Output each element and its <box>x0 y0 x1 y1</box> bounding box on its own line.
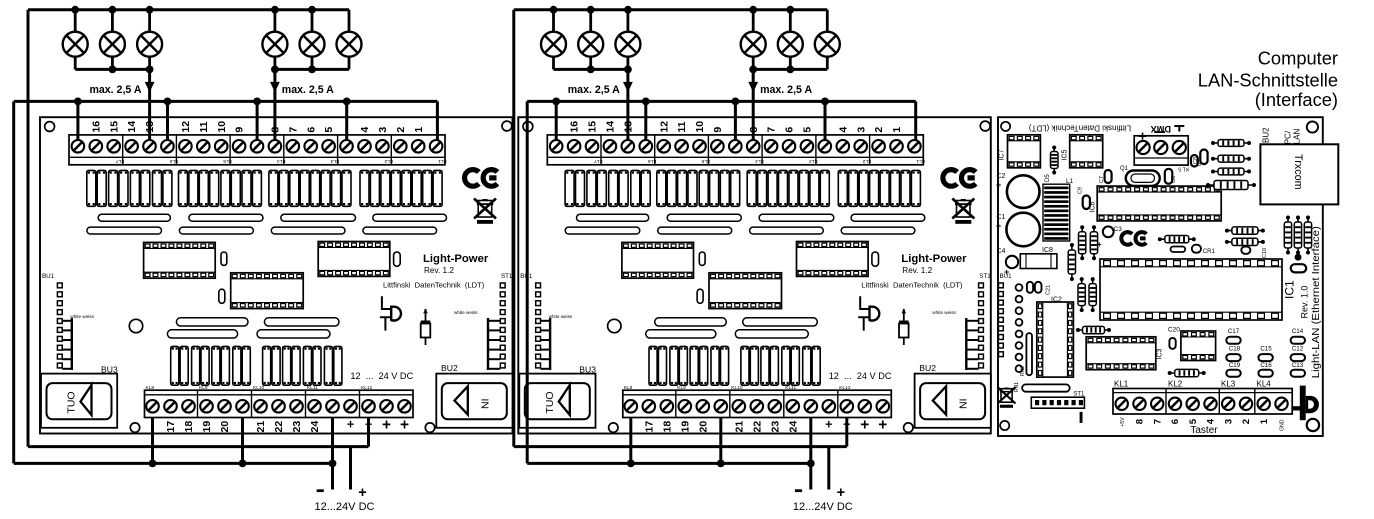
board 1 capacitor beside U1 <box>221 252 227 265</box>
svg-text:IC3: IC3 <box>1157 349 1164 360</box>
wire: bottom common stub (board 2) <box>629 418 632 464</box>
IC6 <box>1097 186 1221 221</box>
svg-text:Computer: Computer <box>1258 48 1338 69</box>
lamp stem bottom (board 2 group 1 lamp 3) <box>627 56 630 69</box>
fuse arrow max 2,5A (board 1 group 2) <box>270 82 280 92</box>
interface board LDT logo (bold) <box>1300 386 1306 421</box>
junction lamp top (board 1) <box>271 6 279 14</box>
svg-text:KL10: KL10 <box>253 385 265 391</box>
Taster terminal strip KL1-KL4 body <box>1113 389 1292 415</box>
svg-text:Light-Power: Light-Power <box>901 253 967 265</box>
svg-text:KL6: KL6 <box>169 158 178 164</box>
ST1 pin header <box>1031 397 1084 408</box>
svg-text:KL2: KL2 <box>862 158 871 164</box>
board 1 LDT logo <box>382 296 391 309</box>
board 2 top strip screw terminals x21 <box>550 140 563 153</box>
svg-text:+: + <box>1138 129 1146 145</box>
lamp stem top (board 2 group 1 lamp 3) <box>627 10 630 32</box>
Light-LAN interface board outline <box>998 117 1323 436</box>
board 2 driver IC U1 <box>622 242 694 278</box>
C2 electrolytic capacitor <box>1007 175 1040 208</box>
junction lamp bottom (board 1) <box>271 66 279 74</box>
wire: lamp group 1 feed riser (board 2) <box>626 69 629 140</box>
board 2 mounting hole top-left <box>523 122 533 132</box>
svg-text:KL9: KL9 <box>677 385 686 391</box>
lamp stem bottom (board 1 group 2 lamp 1) <box>273 56 276 69</box>
svg-text:19: 19 <box>679 421 691 433</box>
svg-text:IC7: IC7 <box>999 150 1006 161</box>
board 1 mounting hole bottom-left <box>130 423 139 432</box>
svg-text:IC5: IC5 <box>1062 150 1069 161</box>
svg-text:5: 5 <box>1188 418 1199 424</box>
ground symbol (DMX) <box>1174 125 1184 127</box>
interface board mounting hole bottom-right <box>1307 419 1319 431</box>
svg-text:C13: C13 <box>1292 362 1304 369</box>
svg-text:KL6: KL6 <box>648 158 657 164</box>
wire: lamp group 2 feed riser (board 2) <box>752 69 755 140</box>
svg-text:KL4: KL4 <box>277 158 286 164</box>
svg-text:20: 20 <box>697 421 709 433</box>
svg-text:C15: C15 <box>1260 346 1272 353</box>
C4 capacitor round <box>1006 256 1018 268</box>
D5 diode <box>1053 148 1055 173</box>
junction below resistor network <box>1295 254 1302 261</box>
wire: lamp supply rail top (board 2) <box>514 8 828 11</box>
wire: bus stub to common terminal (board 2) <box>824 101 827 140</box>
board 1 driver IC U2 <box>231 273 304 309</box>
wire: bus riser left (board 1) <box>12 101 15 463</box>
junction on common bus (board 1) <box>74 98 82 106</box>
svg-text:8: 8 <box>1135 418 1146 424</box>
lamp E5 (board 2) <box>778 32 803 57</box>
svg-text:24: 24 <box>787 421 799 433</box>
svg-text:KL11: KL11 <box>307 385 318 391</box>
svg-text:KL4: KL4 <box>755 158 764 164</box>
C6 capacitor <box>1165 169 1173 184</box>
svg-text:BU1: BU1 <box>42 273 55 280</box>
svg-text:(Interface): (Interface) <box>1255 89 1338 110</box>
lamp E3 (board 2) <box>615 32 640 57</box>
svg-text:7: 7 <box>1152 419 1163 424</box>
junction lamp bottom (board 1) <box>109 66 117 74</box>
svg-text:10: 10 <box>694 121 706 133</box>
svg-text:+: + <box>825 418 832 432</box>
board 2 output driver pairs row (16 units) <box>565 170 574 206</box>
board 2 output driver pairs bottom row (8 units) <box>649 346 657 385</box>
lamp E3 (board 1) <box>137 32 162 57</box>
svg-text:1: 1 <box>1259 418 1270 424</box>
svg-text:Rev. 1.2: Rev. 1.2 <box>902 266 932 275</box>
wire: bottom common stub (board 1) <box>151 418 154 464</box>
svg-text:Littfinski DatenTechnik (LDT: Littfinski DatenTechnik (LDT) <box>383 281 485 290</box>
board 2 capacitor beside U2 <box>697 289 703 303</box>
board 1 driver IC U1 <box>144 242 216 278</box>
board 1 connector BU3 (OUT socket) <box>41 374 117 428</box>
lamp stem top (board 2 group 2 lamp 2) <box>789 10 792 32</box>
svg-text:12...24V DC: 12...24V DC <box>793 501 853 513</box>
resistor network (3 vertical) near BU2 <box>1287 218 1289 253</box>
Light-Power module 2: board outline <box>518 117 991 433</box>
lamp stem bottom (board 1 group 1 lamp 1) <box>74 56 77 69</box>
lamp stem top (board 1 group 1 lamp 2) <box>111 10 114 32</box>
junction lamp top (board 1) <box>71 6 79 14</box>
IC3 <box>1086 337 1156 370</box>
svg-text:Taster: Taster <box>1190 425 1218 436</box>
svg-text:+: + <box>347 418 354 432</box>
board 2 ST1 wire comb <box>965 318 967 370</box>
lamp E1 (board 2) <box>541 32 566 57</box>
svg-text:KL8: KL8 <box>624 385 633 391</box>
interface board mounting hole top-left <box>1001 122 1010 131</box>
junction on common bus (board 2) <box>642 98 650 106</box>
board 2 resistor network bars row C <box>655 318 727 326</box>
board 1 WEEE symbol <box>478 201 492 218</box>
wire: bus end stub into terminal 21 (board 1) <box>436 101 439 140</box>
board 1 output driver pairs bottom row (8 units) <box>171 346 179 385</box>
C10 capacitor <box>1241 247 1250 254</box>
wire: common bus (board 2) <box>527 100 916 103</box>
interface board WEEE symbol <box>1001 389 1012 403</box>
CR1 capacitor <box>1192 245 1201 253</box>
lamp stem bottom (board 2 group 1 lamp 1) <box>552 56 555 69</box>
resistor stack top right r4 (large) <box>1208 184 1254 186</box>
svg-text:LAN: LAN <box>1293 129 1302 145</box>
board 1 output terminal strip KL1-KL7 body <box>69 135 445 165</box>
KL5 screws <box>1137 141 1150 154</box>
board 2 capacitor beside U3 <box>872 252 879 266</box>
svg-text:Q1: Q1 <box>1120 166 1129 172</box>
svg-text:NI: NI <box>958 399 970 410</box>
svg-text:white weiss: white weiss <box>454 310 478 315</box>
svg-text:KL3: KL3 <box>330 158 339 164</box>
capacitor C12 <box>1291 354 1305 361</box>
svg-text:+: + <box>837 485 845 501</box>
D9 capacitor right <box>1191 155 1198 167</box>
capacitor C17 <box>1226 337 1240 344</box>
junction lamp top (board 2) <box>587 6 595 14</box>
svg-text:BU2: BU2 <box>1261 127 1270 143</box>
svg-text:D5: D5 <box>1045 174 1051 182</box>
wire: bus end stub into terminal 21 (board 2) <box>914 101 917 140</box>
board 2 mounting hole top-right <box>980 121 990 131</box>
svg-text:C14: C14 <box>1292 328 1304 335</box>
wire: +V rail stub to terminal (board 2) <box>845 418 848 447</box>
svg-text:+: + <box>996 180 1001 190</box>
svg-text:C9: C9 <box>1078 187 1084 194</box>
svg-text:KL2: KL2 <box>1168 379 1183 388</box>
wire: +V rail bottom (board 1) <box>28 445 369 448</box>
wire: bus stub to common terminal (board 1) <box>166 101 169 140</box>
wire: bus riser left (board 2) <box>526 101 529 463</box>
svg-text:3: 3 <box>855 127 867 133</box>
svg-text:11: 11 <box>198 121 210 132</box>
junction lamp top (board 2) <box>550 6 558 14</box>
C1 electrolytic capacitor <box>1006 213 1040 247</box>
svg-text:6: 6 <box>305 127 317 133</box>
wire: lamp group 2 feed riser (board 1) <box>273 69 276 140</box>
svg-text:PC/: PC/ <box>1283 130 1292 144</box>
wire: bus stub to common terminal (board 2) <box>555 101 558 140</box>
wire: bus stub to common terminal (board 1) <box>76 101 79 140</box>
IC5 <box>1070 135 1103 168</box>
lamp stem bottom (board 1 group 1 lamp 3) <box>148 56 151 69</box>
vertical resistor left of IC2 <box>1071 245 1073 279</box>
svg-text:18: 18 <box>183 421 195 433</box>
L1 inductor (striped) <box>1043 184 1070 241</box>
svg-text:KL7: KL7 <box>115 158 124 164</box>
svg-text:+: + <box>996 221 1001 231</box>
junction on common bus (board 2) <box>821 98 829 106</box>
label '-' supply (board 2) <box>795 489 802 492</box>
svg-text:1: 1 <box>413 127 425 133</box>
svg-text:12: 12 <box>658 121 670 133</box>
svg-text:max. 2,5 A: max. 2,5 A <box>89 84 141 96</box>
svg-text:+: + <box>382 417 391 434</box>
svg-text:TUO: TUO <box>544 391 556 413</box>
wire: lamp group 2 bottom bar (board 1) <box>275 68 349 71</box>
svg-text:6: 6 <box>784 127 796 133</box>
board 1 mounting hole top-left <box>45 122 55 132</box>
svg-text:C10: C10 <box>1262 248 1268 258</box>
junction lamp top (board 2) <box>624 6 632 14</box>
svg-text:Light-LAN (Ethernet Interface): Light-LAN (Ethernet Interface) <box>1311 226 1322 378</box>
junction on bottom bus (board 2) <box>717 460 725 468</box>
wire: rail riser left (board 1) <box>27 10 30 447</box>
svg-text:3: 3 <box>1223 419 1234 424</box>
wire: bottom common stub (board 1) <box>241 418 244 464</box>
svg-text:+5V: +5V <box>1120 417 1126 427</box>
svg-text:14: 14 <box>126 121 138 133</box>
board 1 capacitor beside U2 <box>219 289 225 303</box>
svg-text:23: 23 <box>291 421 303 433</box>
lamp stem bottom (board 1 group 2 lamp 3) <box>348 56 351 69</box>
lamp E5 (board 1) <box>300 32 325 57</box>
wire: +V rail stub to terminal (board 1) <box>367 418 370 447</box>
crystal Q1 <box>1126 171 1160 186</box>
junction lamp top (board 2) <box>749 6 757 14</box>
svg-text:C3: C3 <box>1114 226 1123 233</box>
junction lamp top (board 1) <box>109 6 117 14</box>
interface board mounting hole top-right <box>1307 121 1318 132</box>
junction lamp bottom (board 1) <box>308 66 316 74</box>
svg-text:max. 2,5 A: max. 2,5 A <box>282 84 334 96</box>
svg-text:KL4: KL4 <box>1257 379 1272 388</box>
junction lamp top (board 1) <box>308 6 316 14</box>
board 2 connector ST1 pin pads <box>979 283 984 288</box>
C22 capacitor <box>1035 282 1042 293</box>
board 1 bottom terminal strip KL8-KL12 body <box>145 390 414 417</box>
wire: bottom common bus (board 2) <box>527 462 811 465</box>
lamp stem bottom (board 2 group 2 lamp 2) <box>789 56 792 69</box>
wire: bus stub to common terminal (board 2) <box>734 101 737 140</box>
wire: lamp group 1 bottom bar (board 2) <box>554 68 628 71</box>
svg-text:C2: C2 <box>997 173 1006 180</box>
board 2 via pad circle <box>608 319 621 332</box>
board 2 bottom strip screw terminals x15 <box>625 400 638 413</box>
lamp E6 (board 2) <box>815 32 840 57</box>
wire: lamp group 1 feed riser (board 1) <box>148 69 151 140</box>
svg-text:Trxcom: Trxcom <box>1292 154 1304 190</box>
svg-text:10: 10 <box>216 121 228 133</box>
board 2 driver IC U3 <box>797 242 869 277</box>
svg-text:4: 4 <box>359 127 371 133</box>
junction lamp bottom (board 2) <box>624 66 632 74</box>
svg-text:21: 21 <box>733 421 745 433</box>
board 1 resistor network bars row D <box>167 330 237 338</box>
capacitor C19 <box>1226 370 1240 377</box>
svg-text:18: 18 <box>661 421 673 433</box>
svg-text:C4: C4 <box>997 248 1006 255</box>
svg-text:C19: C19 <box>1229 362 1241 369</box>
lamp stem top (board 2 group 2 lamp 1) <box>752 10 755 32</box>
svg-text:LAN-Schnittstelle: LAN-Schnittstelle <box>1198 70 1338 91</box>
board 2 connector BU2 (IN socket) <box>915 374 991 428</box>
lamp stem bottom (board 1 group 2 lamp 2) <box>311 56 314 69</box>
svg-text:20: 20 <box>219 421 231 433</box>
board 1 top strip screw terminals x21 <box>72 140 85 153</box>
board 1 connector BU1 pin pads <box>57 283 62 288</box>
board 2 capacitor beside U1 <box>699 252 705 265</box>
svg-text:+: + <box>878 417 887 434</box>
IC7 <box>1008 135 1041 168</box>
IC2 (vertical DIP) <box>1037 302 1074 377</box>
lamp stem top (board 1 group 2 lamp 1) <box>273 10 276 32</box>
wire: bus stub to common terminal (board 1) <box>345 101 348 140</box>
lamp E6 (board 1) <box>337 32 362 57</box>
junction on common bus (board 1) <box>343 98 351 106</box>
svg-text:Rev. 1.2: Rev. 1.2 <box>424 266 454 275</box>
board 1 mounting hole bottom-right <box>425 423 434 432</box>
svg-text:C1: C1 <box>997 214 1006 221</box>
svg-text:BU2: BU2 <box>919 363 936 373</box>
wire: + supply drop (board 2) <box>827 447 830 490</box>
board 1 connector ST1 pin pads <box>500 283 505 288</box>
svg-text:23: 23 <box>769 421 781 433</box>
svg-text:KL12: KL12 <box>839 385 851 391</box>
wire: + supply drop (board 1) <box>349 447 352 490</box>
board 2 IN arrow <box>933 386 946 414</box>
board 1 connector BU2 (IN socket) <box>436 374 512 428</box>
svg-text:Littfinski DatenTechnik (LDT): Littfinski DatenTechnik (LDT) <box>1029 124 1132 133</box>
lamp stem bottom (board 2 group 1 lamp 2) <box>589 56 592 69</box>
vertical resistor pair lower <box>1081 279 1083 310</box>
lamp stem top (board 2 group 1 lamp 2) <box>589 10 592 32</box>
capacitor next to IC4 <box>1169 338 1175 349</box>
lamp E2 (board 1) <box>100 32 125 57</box>
junction on bottom bus (board 1) <box>239 460 247 468</box>
svg-text:9: 9 <box>712 127 724 133</box>
SIL socket pins <box>1016 284 1023 291</box>
board 1 capacitor beside U3 <box>394 252 401 266</box>
svg-text:C18: C18 <box>1229 346 1241 353</box>
C7 capacitor <box>1105 170 1112 183</box>
svg-text:TUO: TUO <box>66 391 78 413</box>
board 2 mounting hole bottom-right <box>904 423 913 432</box>
resistor pair above IC1 right <box>1227 230 1263 232</box>
svg-text:11: 11 <box>676 121 688 132</box>
fuse arrow max 2,5A (board 1 group 1) <box>145 82 155 92</box>
svg-text:19: 19 <box>201 421 213 433</box>
svg-text:NI: NI <box>479 399 491 410</box>
svg-text:21: 21 <box>255 421 267 433</box>
Taster strip screws x10 <box>1116 398 1128 410</box>
svg-text:white weiss: white weiss <box>70 314 94 319</box>
wire: bus stub to common terminal (board 2) <box>644 101 647 140</box>
svg-text:17: 17 <box>643 421 655 433</box>
svg-text:3: 3 <box>377 127 389 133</box>
junction lamp bottom (board 2) <box>587 66 595 74</box>
svg-text:white weiss: white weiss <box>932 310 956 315</box>
board 2 driver IC U2 <box>709 273 782 309</box>
RN2 resistor bar <box>1026 333 1032 375</box>
junction on common bus (board 2) <box>552 98 560 106</box>
svg-text:CR1: CR1 <box>1203 249 1216 255</box>
junction on common bus (board 1) <box>164 98 172 106</box>
svg-text:2: 2 <box>1241 419 1252 424</box>
lamp stem top (board 1 group 1 lamp 1) <box>74 10 77 32</box>
IC1 (main controller) <box>1100 259 1282 320</box>
svg-text:KL8: KL8 <box>146 385 155 391</box>
Light-Power module 1: board outline <box>40 117 513 433</box>
C9 capacitor <box>1083 196 1090 210</box>
svg-text:2: 2 <box>873 127 885 133</box>
C8 capacitor <box>1200 150 1207 165</box>
svg-text:+: + <box>860 417 869 434</box>
svg-text:7: 7 <box>766 127 778 133</box>
svg-text:KL1: KL1 <box>916 158 925 164</box>
board 2 BU1 wire comb <box>549 318 551 370</box>
lamp E1 (board 1) <box>63 32 88 57</box>
svg-text:16: 16 <box>90 121 102 133</box>
board 2 connector BU1 pin pads <box>536 283 541 288</box>
board 2 OUT arrow <box>559 385 570 415</box>
svg-text:C6: C6 <box>1171 176 1177 183</box>
fuse arrow max 2,5A (board 2 group 1) <box>623 82 633 92</box>
svg-text:KL1: KL1 <box>1114 379 1129 388</box>
svg-text:4: 4 <box>1206 418 1217 424</box>
resistor below IC4 <box>1170 372 1204 374</box>
svg-text:5: 5 <box>323 127 335 133</box>
resistor left of IC3 <box>1078 329 1109 331</box>
lamp stem top (board 1 group 2 lamp 2) <box>311 10 314 32</box>
board 2 resistor network bars row D <box>646 330 716 338</box>
lamp E4 (board 2) <box>741 32 766 57</box>
svg-text:1: 1 <box>891 127 903 133</box>
svg-text:7: 7 <box>287 127 299 133</box>
lamp E4 (board 1) <box>262 32 287 57</box>
lamp stem bottom (board 2 group 2 lamp 3) <box>826 56 829 69</box>
svg-text:KL2: KL2 <box>384 158 393 164</box>
junction lamp top (board 1) <box>146 6 154 14</box>
lamp stem top (board 1 group 2 lamp 3) <box>348 10 351 32</box>
svg-text:KL1: KL1 <box>438 158 447 164</box>
board 1 IN arrow <box>455 386 468 414</box>
C3 capacitor round <box>1103 226 1114 237</box>
svg-text:5: 5 <box>802 127 814 133</box>
svg-text:KL11: KL11 <box>785 385 796 391</box>
svg-text:KL9: KL9 <box>199 385 208 391</box>
svg-text:BU1: BU1 <box>1000 273 1013 280</box>
junction on common bus (board 2) <box>732 98 740 106</box>
junction lamp bottom (board 2) <box>786 66 794 74</box>
svg-text:15: 15 <box>108 121 120 133</box>
svg-text:IC8: IC8 <box>1042 247 1053 254</box>
C11 capacitor <box>1027 282 1033 293</box>
board 2 mounting hole bottom-left <box>609 423 618 432</box>
capacitor C15 <box>1258 354 1272 361</box>
svg-text:12 ... 24 V DC: 12 ... 24 V DC <box>350 371 413 381</box>
RN1 resistor bar horizontal <box>1022 384 1070 391</box>
